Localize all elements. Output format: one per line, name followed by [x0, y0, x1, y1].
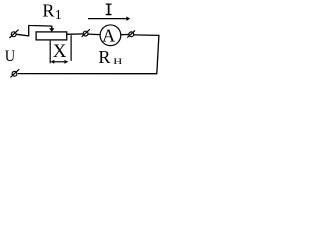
slider arrow of rheostat	[49, 26, 54, 32]
wire (R1 to T2)	[67, 33, 84, 35]
arrow I (current direction)	[88, 16, 130, 21]
svg-text:U: U	[5, 47, 15, 65]
svg-text:A: A	[102, 25, 115, 45]
svg-text:H: H	[113, 56, 122, 66]
svg-text:R: R	[98, 47, 110, 67]
wire (T2 to ammeter)	[88, 33, 100, 36]
wire (T1 to jog, up, top bar to slider)	[16, 25, 52, 36]
ammeter U1 (circle)	[100, 25, 121, 46]
svg-text:R: R	[42, 0, 54, 20]
wire (T3 right, corner down, bottom run to T4)	[18, 35, 159, 74]
terminal T3 (ammeter right)	[127, 30, 135, 37]
dimension line left (slider position extension)	[49, 41, 51, 64]
svg-text:X: X	[53, 41, 67, 62]
terminal T1 (top-left input)	[9, 30, 18, 38]
dimension arrow X (double-headed)	[50, 60, 68, 64]
dimension line right (rheostat right end extension)	[70, 35, 72, 61]
label I (current, serif capital drawn as path)	[106, 4, 112, 16]
terminal T4 (bottom-left input)	[10, 69, 19, 77]
wire (ammeter to T3)	[121, 34, 129, 36]
resistor R1 (rheostat body)	[36, 32, 67, 40]
terminal T2 (ammeter left)	[82, 29, 90, 37]
svg-text:1: 1	[55, 8, 62, 23]
